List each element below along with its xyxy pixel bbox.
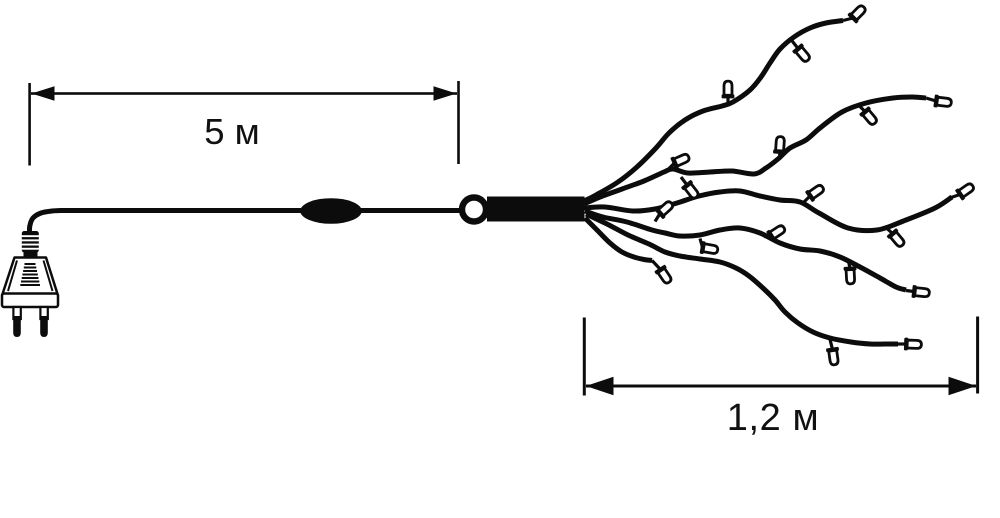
dimension line 5 m : right tick: [457, 81, 460, 164]
bulb 3 tip of branch 1: [843, 3, 868, 24]
connector block: [487, 197, 585, 222]
bulb 18 tip of branch 5: [898, 338, 922, 351]
plug body inner right line: [44, 261, 53, 292]
dimension line 5 m : left arrowhead: [32, 86, 55, 100]
bulb 11 tip of branch 3: [951, 180, 976, 200]
branch 4 wire: [585, 211, 906, 290]
branch 3 wire: [584, 191, 952, 231]
branch 1 wire: [584, 21, 843, 202]
dimension line 1,2 m : right tick: [976, 317, 979, 394]
dimension line 1,2 m : right arrowhead: [949, 377, 977, 395]
bulb 1 on branch 1: [722, 81, 735, 106]
bulb 19 tip of branch 6: [652, 261, 674, 286]
bulb 4 on branch 2: [668, 151, 691, 170]
bulb 12 on branch 3: [654, 198, 675, 221]
dimension line 1,2 m : left arrowhead: [586, 377, 614, 395]
bulb 5 on branch 2: [773, 136, 787, 158]
svg-text:5 м: 5 м: [204, 111, 260, 152]
dimension line 1,2 m : left tick: [583, 318, 586, 396]
bulb 10 under branch 3: [886, 228, 907, 250]
dimension line 5 m : horizontal line: [31, 92, 457, 95]
svg-text:1,2 м: 1,2 м: [727, 397, 820, 439]
dimension line 5 m : right arrowhead: [434, 86, 457, 100]
plug right prong: [40, 307, 48, 337]
plug left prong: [13, 307, 21, 337]
plug base: [2, 294, 58, 308]
supply cord from plug to connector: [29, 211, 465, 237]
bulb 16 tip of branch 4: [906, 285, 930, 300]
bulb 15 under branch 4: [844, 261, 858, 284]
branch 5 wire: [586, 214, 898, 344]
controller oval on cord: [300, 198, 362, 224]
plug strain-relief coil: [21, 231, 40, 253]
plug body inner left line: [8, 261, 17, 292]
branch 2 wire: [584, 97, 926, 204]
bulb 8 under branch 2: [681, 177, 702, 201]
bulb 9 on branch 3: [804, 182, 826, 202]
dimension line 5 m : left tick: [28, 83, 31, 166]
plug neck: [24, 250, 38, 259]
bulb 6 under branch 2: [859, 106, 880, 128]
branch 6 wire: [585, 218, 652, 261]
bulb 14 on branch 4: [764, 222, 787, 242]
bulb 13 under branch 4: [700, 239, 719, 257]
bulb 17 under branch 5: [826, 340, 841, 366]
ring before connector: [462, 198, 486, 222]
dimension line 1,2 m : horizontal line: [586, 385, 976, 388]
bulb 7 tip of branch 2: [926, 94, 952, 109]
plug vent lines: [20, 264, 40, 285]
bulb 2 under branch 1: [791, 40, 813, 65]
plug body trapezoid: [3, 258, 58, 295]
